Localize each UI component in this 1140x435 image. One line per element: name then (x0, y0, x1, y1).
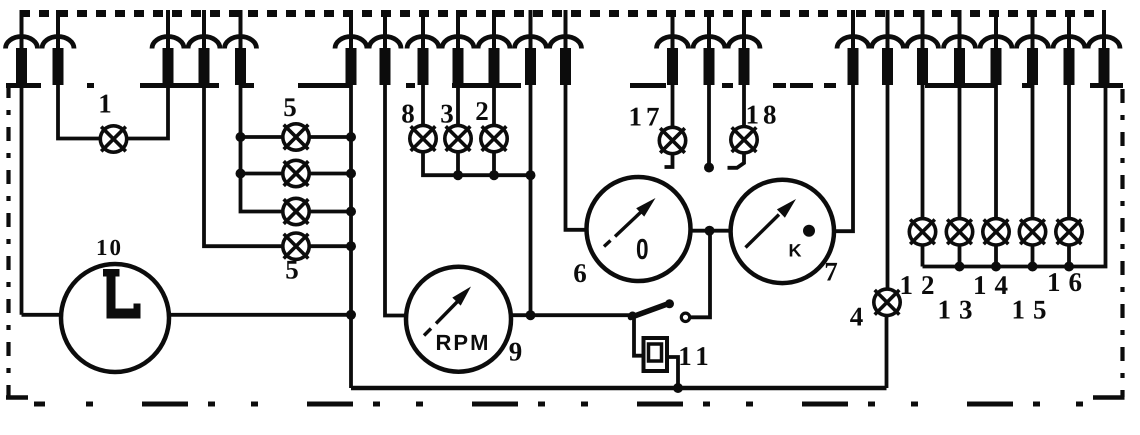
connector X15 (plug-socket pin) (728, 10, 760, 85)
wire lamp 16 lower lead (1067, 245, 1071, 267)
connector-strip dash-dot boundary line (6, 83, 1123, 88)
connector X7 (plug-socket pin) (369, 10, 401, 85)
connector X22 (plug-socket pin) (1053, 10, 1085, 85)
wire lamp 18 lower lead hook (728, 153, 745, 168)
wire bus right end up through lamp 4 to connector X17 (885, 315, 889, 388)
svg-text:5: 5 (285, 255, 299, 285)
svg-text:K: K (789, 241, 802, 261)
wire contact to gauges junction (690, 231, 711, 318)
wire from connector X4 down to lamp 5 row4 (204, 84, 283, 246)
svg-text:5: 5 (283, 92, 297, 122)
gauge 9 needle (424, 329, 431, 336)
switch open contact (681, 313, 689, 321)
wire from connector X12 down to gauge 6 (566, 84, 587, 230)
svg-text:0: 0 (636, 234, 649, 266)
switch S pivot (629, 312, 637, 320)
connector X14 (plug-socket pin) (693, 10, 725, 85)
junction bottom bus (673, 383, 683, 393)
lamp 5 row3 (283, 198, 309, 224)
gauge 9 RPM body (406, 267, 511, 372)
svg-text:3: 3 (440, 99, 454, 129)
connector X18 (plug-socket pin) (907, 10, 939, 85)
svg-text:10: 10 (96, 235, 123, 260)
svg-text:2: 2 (475, 96, 489, 126)
lamp 3 (445, 125, 471, 151)
junction lamp 3 on bus (453, 170, 463, 180)
lamp 16 (1056, 219, 1082, 245)
junction on left bus row1 (236, 132, 246, 142)
wire from connector X9 down to lamp 3 (456, 84, 460, 126)
svg-text:7: 7 (824, 257, 838, 287)
svg-text:1: 1 (98, 89, 112, 119)
junction right bus row2 (346, 169, 356, 179)
wire clock right lead to right bus (169, 313, 351, 317)
lamp 8 (410, 125, 436, 151)
connector X11 (plug-socket pin) (515, 10, 547, 85)
junction right bus row3 (346, 207, 356, 217)
wire lamp 5 row4 right lead (309, 244, 351, 248)
svg-text:14: 14 (973, 270, 1016, 300)
wire from connector X15 down to lamp 18 (742, 84, 746, 127)
wire clock left lead (22, 313, 62, 317)
connector X1 (plug-socket pin) (6, 10, 38, 85)
clock hands (103, 269, 141, 319)
wire switch pivot down to fuse box 11 (634, 316, 644, 356)
border bottom dash-dot line (34, 402, 45, 407)
junction lamp 13 bus (955, 262, 965, 272)
gauge 7 body (731, 180, 834, 283)
lamp 17 (659, 127, 685, 153)
junction lamp 2 on bus (489, 170, 499, 180)
wire from connector down to lamp 12 (921, 84, 925, 220)
wire from connector down to lamp 13 (958, 84, 962, 220)
wire right bus from connector X6 down to bottom bus (349, 84, 353, 388)
fuse box 11 inner (649, 344, 662, 361)
border bottom-left corner (6, 395, 28, 400)
lamp 14 (983, 219, 1009, 245)
svg-text:9: 9 (509, 337, 523, 367)
junction lamp 16 bus (1064, 262, 1074, 272)
wire from connector X1 down to clock (20, 84, 24, 315)
gauge 6 body (587, 177, 691, 281)
lamp 5 row4 (283, 233, 309, 259)
wire fuse box to bottom bus (667, 357, 678, 388)
svg-text:18: 18 (746, 100, 781, 130)
wire from connector X2 down to lamp 1 (58, 84, 100, 139)
connector X21 (plug-socket pin) (1017, 10, 1049, 85)
connector X9 (plug-socket pin) (442, 10, 474, 85)
wire lamp 15 lower lead (1031, 245, 1035, 267)
svg-text:16: 16 (1047, 267, 1090, 297)
junction right bus row4 (346, 241, 356, 251)
wire lamp 5 row2 left lead (241, 172, 284, 176)
junction bus right end (526, 170, 536, 180)
border top dashed line (20, 10, 1097, 17)
clock 10 body (61, 264, 169, 372)
junction on left bus row2 (236, 169, 246, 179)
svg-text:4: 4 (850, 302, 864, 332)
junction right bus row1 (346, 132, 356, 142)
connector X16 (plug-socket pin) (837, 10, 869, 85)
wire lamp 8 lead down to lamp bus (423, 152, 531, 176)
border right dash-dot line (1120, 89, 1124, 397)
connector X5 (plug-socket pin) (225, 10, 257, 85)
junction between gauges (705, 226, 715, 236)
wire bottom bus (351, 386, 887, 391)
connector X10 (plug-socket pin) (478, 10, 510, 85)
wire lamp 5 row3 right lead (309, 210, 351, 214)
lamp 12 (909, 219, 935, 245)
wire from connector X7 down to RPM gauge (385, 84, 407, 316)
wire lamp 3 lead down (456, 152, 460, 176)
svg-text:15: 15 (1012, 295, 1055, 325)
junction right bus clock lead (346, 310, 356, 320)
wire bus down to RPM junction (529, 84, 533, 315)
connector X8 (plug-socket pin) (407, 10, 439, 85)
junction lamp 15 bus (1028, 262, 1038, 272)
svg-text:6: 6 (573, 258, 587, 288)
connector X20 (plug-socket pin) (980, 10, 1012, 85)
wire lamp 5 row2 right lead (309, 172, 351, 176)
wire lamp 5 row1 right lead (309, 135, 351, 139)
svg-text:RPM: RPM (436, 330, 491, 355)
wire lamp 12 lower lead (921, 245, 925, 267)
lamp 1 (100, 126, 126, 152)
svg-text:17: 17 (629, 102, 664, 132)
connector X6 (plug-socket pin) (335, 10, 367, 85)
lamp 18 (731, 127, 757, 153)
wire lamp 1 right lead up to connector X3 (127, 84, 168, 139)
wire lamp 14 lower lead (994, 245, 998, 267)
lamp 5 row2 (283, 160, 309, 186)
wire lamp 4 up to connector X17 (886, 84, 890, 290)
junction RPM right lead (526, 310, 536, 320)
wire RPM right lead (511, 313, 531, 317)
gauge 7 degree dot (803, 225, 815, 237)
wire lamp 13 lower lead (958, 245, 962, 267)
lamp 13 (946, 219, 972, 245)
wire lamps 12-16 bottom bus up to connector X23 (923, 84, 1106, 267)
lamp 4 (874, 289, 900, 315)
gauge 7 needle (746, 215, 780, 248)
wire from connector down to lamp 14 (994, 84, 998, 220)
wire from connector X10 down to lamp 2 (492, 84, 496, 126)
connector X13 (plug-socket pin) (657, 10, 689, 85)
wire from connector down to lamp 16 (1067, 84, 1071, 220)
connector X17 (plug-socket pin) (872, 10, 904, 85)
svg-text:12: 12 (900, 270, 943, 300)
switch lever (631, 305, 667, 318)
border bottom-right corner (1093, 395, 1125, 400)
connector X3 (plug-socket pin) (152, 10, 184, 85)
junction lamp 14 bus (991, 262, 1001, 272)
lamp 15 (1019, 219, 1045, 245)
wire gauge 7 right lead up to connector X16 (834, 84, 853, 231)
wire lamp 5 row1 left lead (241, 135, 284, 139)
connector X2 (plug-socket pin) (42, 10, 74, 85)
wire RPM junction to switch pivot (531, 313, 632, 317)
junction node centre (704, 163, 714, 173)
gauge 6 needle (604, 241, 611, 247)
border left dash-dot line (6, 84, 10, 397)
wire from connector down to lamp 15 (1031, 84, 1035, 220)
svg-text:11: 11 (678, 341, 714, 371)
connector X19 (plug-socket pin) (944, 10, 976, 85)
wire gauge 6 right lead (691, 229, 731, 233)
connector X12 (plug-socket pin) (550, 10, 582, 85)
wire lamp 17 lower lead hook (665, 154, 673, 167)
connector X4 (plug-socket pin) (188, 10, 220, 85)
wire lamp-5 left bus from connector X5 (241, 84, 284, 212)
svg-text:8: 8 (401, 99, 415, 129)
wire from connector X13 down to lamp 17 (671, 84, 675, 128)
wire from connector X14 down to node (707, 84, 711, 163)
fuse box 11 outer (644, 338, 668, 371)
lamp 2 (481, 125, 507, 151)
wire lamp 2 lead down (492, 152, 496, 176)
lamp 5 row1 (283, 124, 309, 150)
wire from connector X8 down to lamp 8 (421, 84, 425, 126)
connector X23 (plug-socket pin) (1088, 10, 1120, 85)
